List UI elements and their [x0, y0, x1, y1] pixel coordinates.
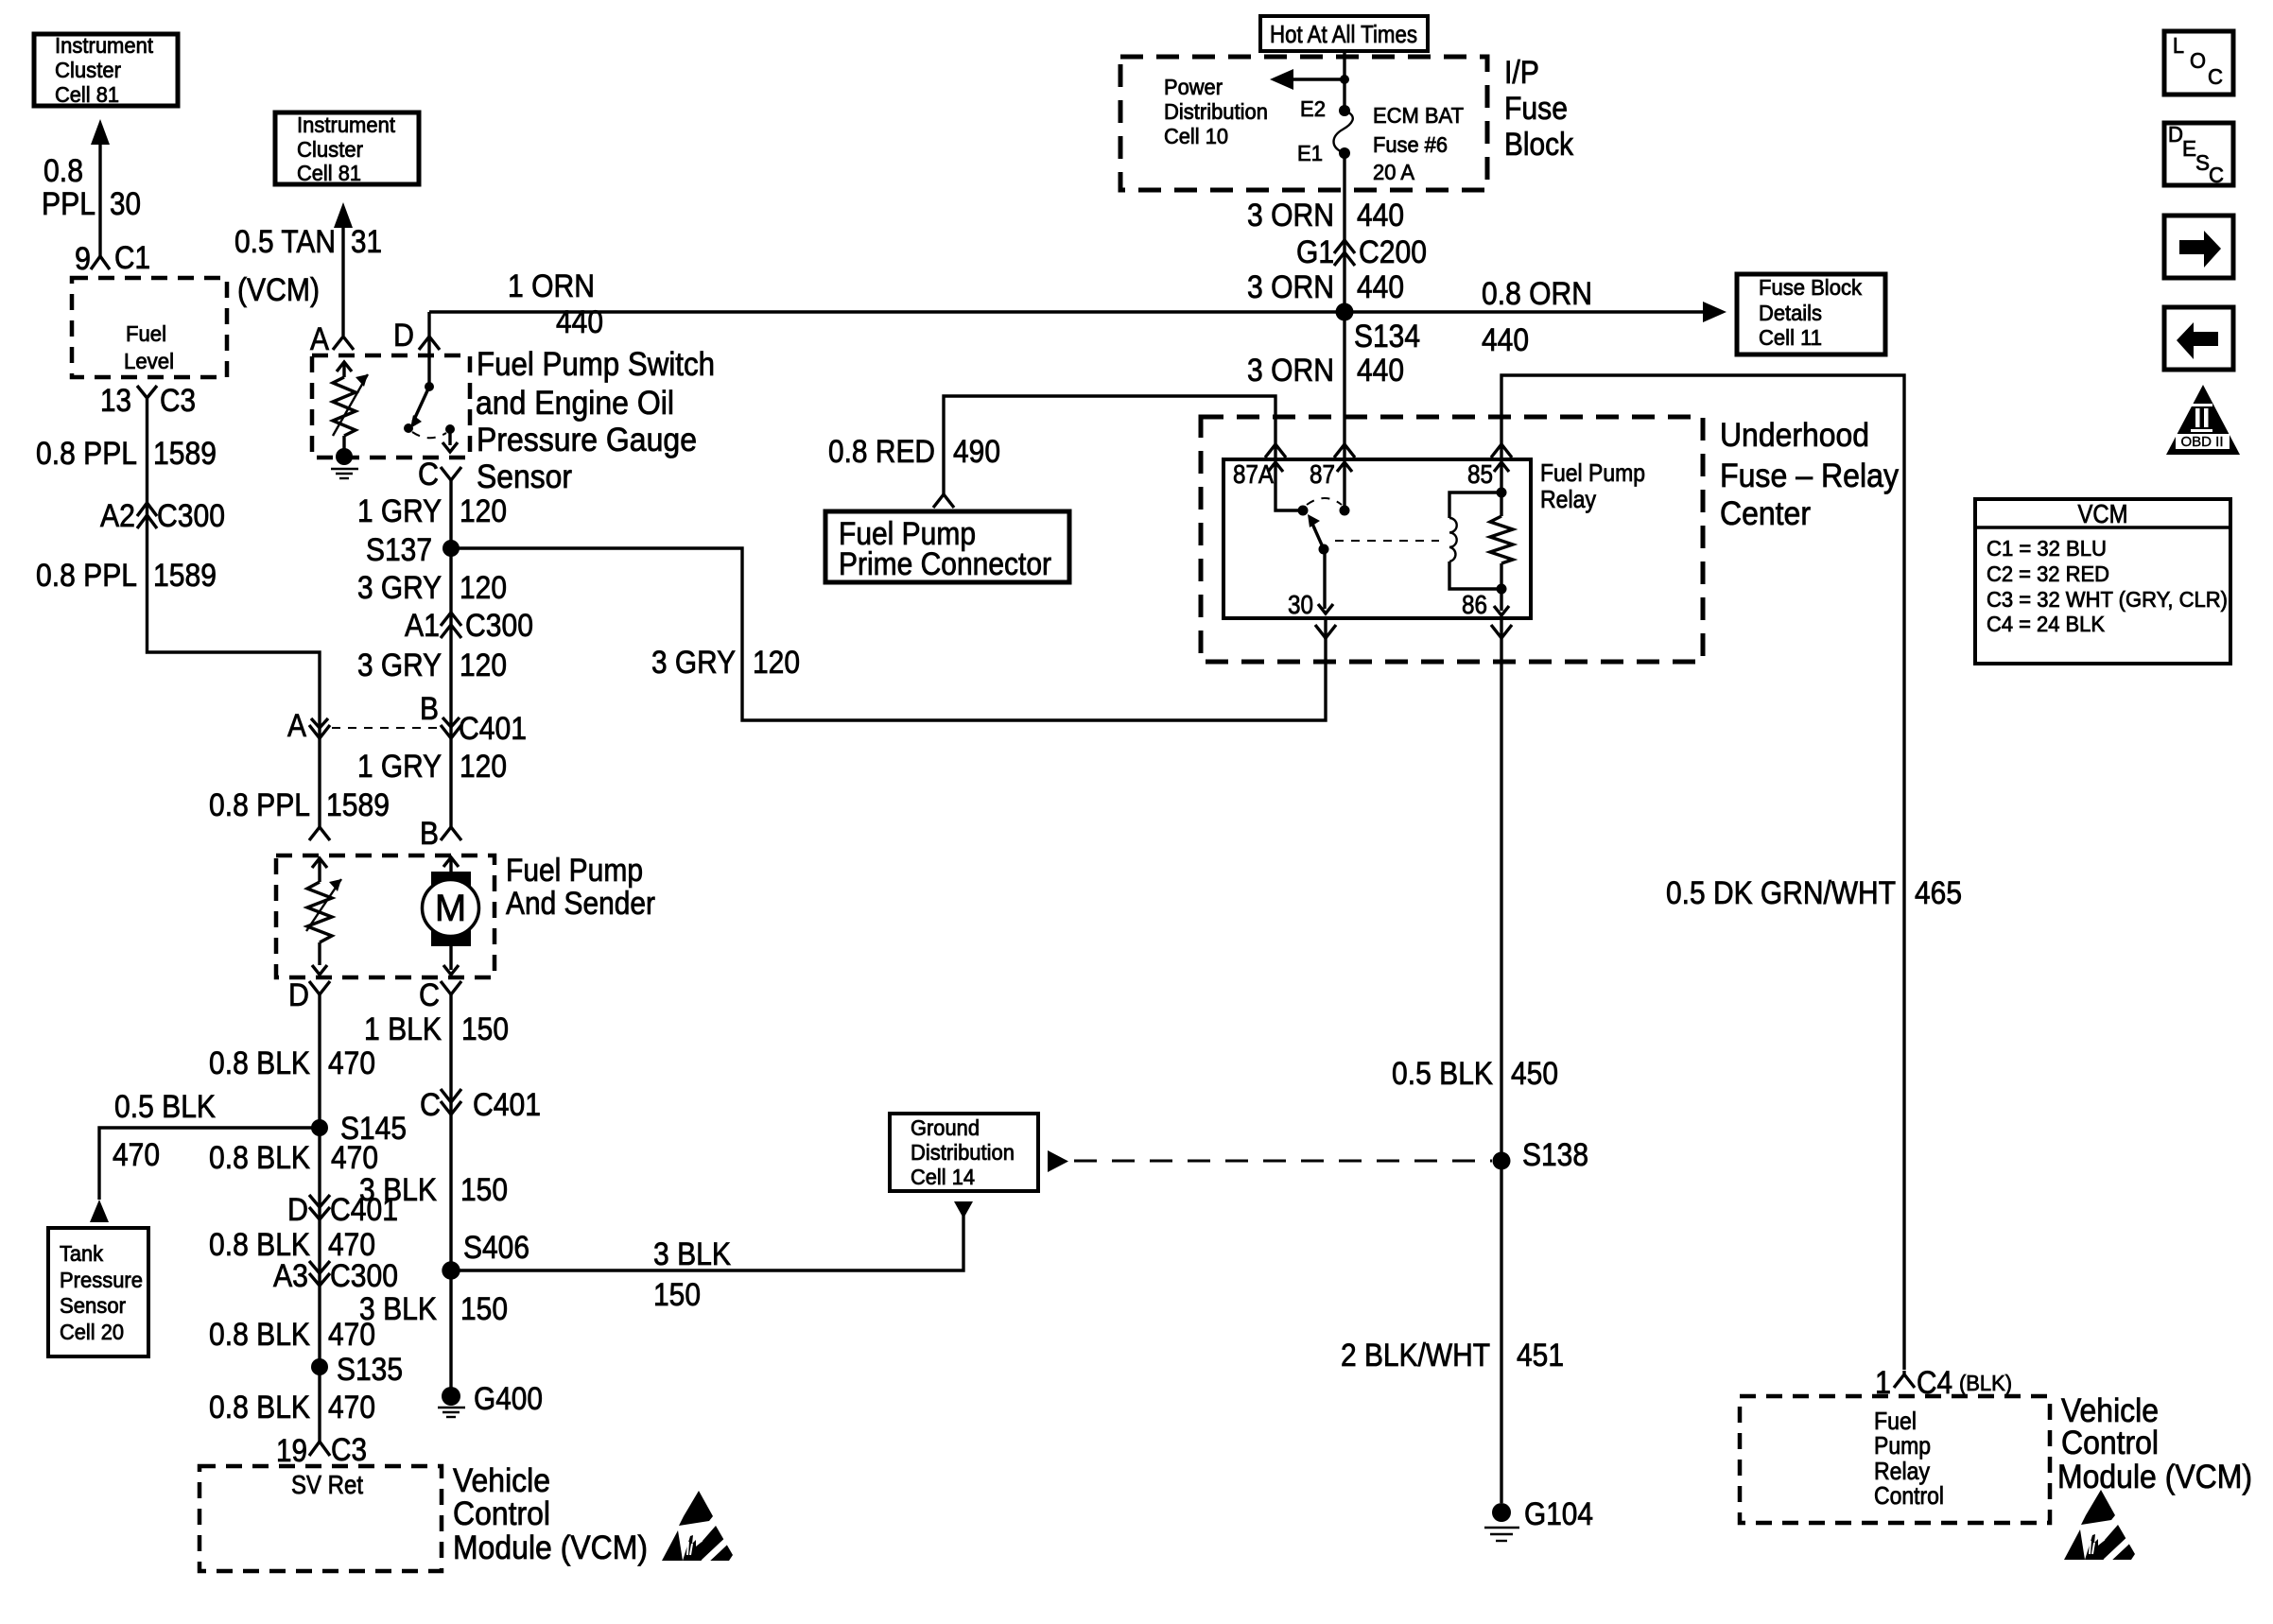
label 3 GRY 120 (below A1 C300)	[357, 648, 507, 683]
svg-text:Control: Control	[1874, 1481, 1944, 1510]
svg-text:Fuel Pump: Fuel Pump	[506, 853, 643, 889]
svg-text:A: A	[310, 321, 329, 357]
svg-text:Sensor: Sensor	[60, 1293, 126, 1318]
icon: OBD II triangle	[2166, 385, 2240, 455]
svg-text:Fuel Pump Switch: Fuel Pump Switch	[477, 346, 715, 383]
svg-text:Power: Power	[1164, 75, 1223, 99]
svg-text:Cluster: Cluster	[297, 137, 363, 162]
relay pin 30 (common)	[1288, 549, 1333, 619]
relay pin 87 contact	[1310, 459, 1352, 516]
connector (relay 87 pin)	[1334, 444, 1355, 458]
icon: DESC box	[2164, 122, 2233, 187]
svg-text:O: O	[2190, 48, 2206, 73]
svg-text:Cluster: Cluster	[55, 58, 121, 82]
svg-text:120: 120	[460, 570, 507, 606]
fuse ECM BAT Fuse #6 20 A	[1297, 96, 1464, 184]
svg-text:C300: C300	[157, 498, 225, 534]
wire 3 GRY 120 (S137 to fuel pump relay 30)	[451, 548, 1326, 720]
connector C (below switch box)	[418, 457, 461, 492]
box: Instrument Cluster Cell 81 (upper middle)	[275, 112, 419, 185]
svg-text:1 BLK: 1 BLK	[364, 1011, 442, 1047]
svg-text:31: 31	[351, 224, 382, 260]
relay resistor	[1490, 488, 1513, 595]
svg-text:C300: C300	[465, 608, 533, 644]
svg-text:and Engine Oil: and Engine Oil	[476, 385, 674, 422]
svg-text:C401: C401	[459, 711, 527, 747]
svg-text:(VCM): (VCM)	[237, 272, 320, 308]
svg-text:ECM BAT: ECM BAT	[1373, 103, 1464, 128]
svg-text:G104: G104	[1524, 1496, 1593, 1532]
connector A (C401 row)	[287, 708, 330, 744]
icon: LOC box	[2164, 31, 2233, 95]
svg-text:A3: A3	[273, 1258, 308, 1294]
svg-text:Pressure Gauge: Pressure Gauge	[477, 422, 697, 458]
svg-text:Control: Control	[2061, 1425, 2159, 1461]
connector (relay 85 pin)	[1491, 444, 1512, 458]
svg-text:M: M	[435, 888, 466, 929]
svg-text:3 GRY: 3 GRY	[357, 648, 442, 683]
svg-text:G1: G1	[1296, 234, 1334, 270]
connector 19 C3 (VCM)	[276, 1432, 367, 1469]
svg-text:G400: G400	[474, 1381, 543, 1417]
svg-text:A2: A2	[100, 498, 135, 534]
svg-text:87A: 87A	[1233, 459, 1274, 489]
box: Fuse Block Details Cell 11	[1737, 274, 1885, 354]
svg-text:150: 150	[653, 1277, 701, 1313]
svg-text:Control: Control	[453, 1495, 550, 1532]
label 0.8 PPL 30	[42, 153, 141, 222]
svg-text:Cell 14: Cell 14	[911, 1165, 975, 1189]
ground G104	[1484, 1496, 1593, 1541]
arrow to tank pressure sensor	[90, 1200, 109, 1222]
svg-text:9: 9	[75, 241, 91, 277]
svg-text:Pressure: Pressure	[60, 1268, 143, 1292]
svg-text:0.8 BLK: 0.8 BLK	[209, 1045, 310, 1081]
svg-text:Sensor: Sensor	[477, 458, 572, 495]
wire 3 ORN 440 (fuse to relay 87)	[1343, 153, 1345, 458]
svg-text:(BLK): (BLK)	[1959, 1371, 2012, 1395]
connector D (fuel pump switch)	[393, 318, 440, 354]
wire 0.5 DK GRN/WHT 465 (relay 85 to VCM C4)	[1501, 375, 1904, 1370]
svg-text:Pump: Pump	[1874, 1431, 1931, 1460]
relay pin 86 (coil ground)	[1462, 589, 1509, 619]
wire 0.8 BLK 470 (sender ground chain)	[318, 994, 321, 1442]
svg-text:C3 = 32 WHT (GRY, CLR): C3 = 32 WHT (GRY, CLR)	[1987, 587, 2228, 612]
svg-text:0.8 ORN: 0.8 ORN	[1482, 276, 1592, 312]
svg-text:Cell 81: Cell 81	[297, 161, 361, 185]
svg-text:D: D	[288, 977, 309, 1013]
svg-text:0.5 DK GRN/WHT: 0.5 DK GRN/WHT	[1666, 875, 1896, 911]
svg-text:1 GRY: 1 GRY	[357, 749, 442, 785]
motor M (fuel pump)	[423, 857, 479, 975]
svg-text:Instrument: Instrument	[55, 33, 154, 58]
connector D (below sender box)	[288, 977, 330, 1013]
svg-text:19: 19	[276, 1433, 307, 1469]
svg-text:Fuel: Fuel	[126, 321, 166, 346]
svg-text:0.5 BLK: 0.5 BLK	[1392, 1056, 1493, 1092]
svg-text:B: B	[420, 691, 439, 727]
svg-text:Underhood: Underhood	[1720, 417, 1869, 454]
svg-text:Instrument: Instrument	[297, 112, 396, 137]
box: Instrument Cluster Cell 81 (left)	[34, 33, 178, 107]
connector (into fuel pump sender, left)	[309, 827, 330, 840]
wire (relay 30 through underhood box)	[1324, 618, 1327, 639]
svg-text:450: 450	[1511, 1056, 1558, 1092]
svg-text:C401: C401	[473, 1087, 541, 1123]
icon: right arrow box	[2164, 216, 2233, 278]
box: Ground Distribution Cell 14	[890, 1114, 1038, 1191]
svg-text:Cell 81: Cell 81	[55, 82, 119, 107]
component: I/P Fuse Block (dashed box)	[1120, 57, 1487, 190]
svg-text:C4 = 24 BLK: C4 = 24 BLK	[1987, 612, 2106, 636]
svg-text:0.8 BLK: 0.8 BLK	[209, 1317, 310, 1353]
label Vehicle Control Module (VCM) (bottom right)	[2057, 1392, 2252, 1495]
wire (hot feed into fuse block)	[1343, 50, 1345, 111]
svg-text:3 BLK: 3 BLK	[653, 1236, 731, 1272]
label Fuel Pump Relay	[1540, 458, 1645, 513]
svg-text:Ground: Ground	[911, 1115, 980, 1140]
splice S138	[1493, 1137, 1589, 1173]
label Fuel Pump Switch and Engine Oil Pressure Gauge Sensor	[476, 346, 715, 495]
svg-text:Center: Center	[1720, 495, 1811, 532]
arrow to instrument cluster (left)	[91, 119, 110, 145]
label 0.5 DK GRN/WHT 465	[1666, 875, 1962, 911]
arrow to instrument cluster (middle)	[334, 202, 353, 228]
svg-text:Details: Details	[1759, 301, 1822, 325]
wire 1 BLK 150 (pump motor return)	[449, 994, 452, 1398]
svg-text:0.8 PPL: 0.8 PPL	[36, 558, 137, 594]
label Fuel Pump And Sender	[506, 853, 655, 922]
arrow from ground distribution (right)	[1048, 1150, 1068, 1172]
svg-text:C: C	[420, 1087, 441, 1123]
connector 1 C4 (BLK)	[1875, 1365, 2012, 1401]
connector D C401 (lower)	[287, 1192, 398, 1228]
wire 1 ORN 440 / 0.8 ORN 440 (horizontal)	[429, 312, 1711, 350]
svg-text:0.8: 0.8	[43, 153, 83, 189]
svg-text:Module (VCM): Module (VCM)	[2057, 1459, 2252, 1495]
label 2 BLK/WHT 451	[1341, 1338, 1564, 1373]
svg-text:Hot At All Times: Hot At All Times	[1270, 20, 1417, 48]
svg-text:C1 = 32 BLU: C1 = 32 BLU	[1987, 536, 2107, 561]
svg-text:3 GRY: 3 GRY	[357, 570, 442, 606]
splice S135	[311, 1352, 403, 1388]
svg-text:440: 440	[556, 304, 603, 340]
box: Fuel Pump Prime Connector	[825, 511, 1069, 582]
component: Fuel Pump And Sender (dashed box)	[276, 855, 495, 977]
component: Underhood Fuse-Relay Center (dashed box)	[1201, 417, 1703, 662]
label Vehicle Control Module (VCM) (bottom left)	[453, 1462, 648, 1566]
box: Hot At All Times	[1260, 16, 1428, 51]
svg-text:Distribution: Distribution	[911, 1140, 1015, 1165]
label I/P Fuse Block	[1504, 55, 1574, 163]
wire 0.5 BLK 450 / 2 BLK/WHT 451 (relay 86 to G104)	[1500, 618, 1502, 1503]
label 0.8 ORN 440	[1482, 276, 1592, 358]
svg-text:S406: S406	[463, 1230, 529, 1266]
svg-text:150: 150	[460, 1291, 508, 1327]
wire 0.8 PPL 1589 (fuel level to C401)	[147, 413, 321, 827]
svg-text:E: E	[2182, 136, 2196, 161]
connector G1 C200	[1296, 234, 1427, 270]
svg-text:B: B	[420, 816, 439, 852]
svg-text:30: 30	[1288, 590, 1313, 619]
svg-text:1589: 1589	[153, 558, 217, 594]
label Power Distribution Cell 10	[1164, 75, 1268, 148]
svg-text:D: D	[393, 318, 414, 354]
svg-text:120: 120	[460, 493, 507, 529]
label 3 ORN 440 (row 1)	[1247, 198, 1404, 233]
label 3 ORN 440 (row 2)	[1247, 269, 1404, 305]
label 3 BLK 150 (row 2)	[359, 1291, 508, 1327]
label 0.8 BLK 470 (row 4)	[209, 1317, 375, 1353]
splice S137	[366, 532, 460, 568]
svg-text:E2: E2	[1300, 96, 1326, 121]
svg-text:0.5 BLK: 0.5 BLK	[114, 1089, 216, 1125]
svg-text:1589: 1589	[153, 436, 217, 472]
connector boundary dashed line C401	[332, 727, 439, 729]
label 1 GRY 120 (below C401)	[357, 749, 507, 785]
svg-text:A1: A1	[405, 608, 440, 644]
box: Tank Pressure Sensor Cell 20	[48, 1228, 148, 1356]
component: Vehicle Control Module (dashed box, SV Ret)	[200, 1466, 442, 1571]
label 3 BLK 150 (horizontal run)	[653, 1236, 731, 1313]
svg-text:S: S	[2195, 150, 2210, 175]
svg-text:440: 440	[1482, 322, 1529, 358]
connector (below relay pin 86)	[1491, 625, 1512, 638]
svg-text:3 ORN: 3 ORN	[1247, 269, 1334, 305]
svg-text:0.8 PPL: 0.8 PPL	[36, 436, 137, 472]
svg-text:C1: C1	[114, 240, 150, 276]
svg-text:20 A: 20 A	[1373, 160, 1415, 184]
label 0.8 BLK 470 (row 3)	[209, 1227, 375, 1263]
label 1 BLK 150	[364, 1011, 509, 1047]
label 0.5 TAN 31	[234, 224, 382, 260]
label 0.8 PPL 1589 (lower)	[36, 558, 217, 594]
svg-text:Module (VCM): Module (VCM)	[453, 1529, 648, 1566]
connector (fuel pump prime connector)	[933, 494, 954, 508]
ESD symbol (bottom left VCM)	[662, 1491, 734, 1563]
svg-text:C3: C3	[160, 383, 196, 419]
svg-text:Fuse – Relay: Fuse – Relay	[1720, 458, 1899, 494]
label 0.8 BLK 470 (row 1)	[209, 1045, 375, 1081]
svg-text:C: C	[418, 457, 439, 492]
svg-text:0.8 RED: 0.8 RED	[828, 434, 935, 470]
svg-text:Cell 10: Cell 10	[1164, 124, 1228, 148]
label 0.8 PPL 1589 (below C401)	[209, 787, 390, 823]
connector C C401 (pump return)	[420, 1087, 541, 1123]
svg-text:S134: S134	[1354, 319, 1420, 354]
ground G400	[438, 1381, 543, 1417]
splice S145	[311, 1111, 407, 1147]
svg-text:120: 120	[460, 648, 507, 683]
svg-text:D: D	[287, 1192, 308, 1228]
wire 3 BLK 150 (S406 to ground distribution)	[451, 1216, 963, 1270]
svg-text:Tank: Tank	[60, 1241, 103, 1266]
label 0.5 BLK 450	[1392, 1056, 1558, 1092]
label 0.8 BLK 470 (row 5)	[209, 1390, 375, 1425]
svg-text:120: 120	[753, 645, 800, 681]
svg-text:A: A	[287, 708, 306, 744]
connector A3 C300 (lower)	[273, 1258, 398, 1294]
arrow to fuse block details	[1703, 302, 1726, 322]
svg-text:C401: C401	[330, 1192, 398, 1228]
relay pin 87A (normally closed contact)	[1233, 459, 1309, 516]
connector B C401	[420, 691, 527, 747]
svg-text:87: 87	[1310, 459, 1335, 489]
ESD symbol (bottom right VCM)	[2064, 1490, 2136, 1562]
svg-text:Relay: Relay	[1540, 485, 1596, 513]
svg-text:85: 85	[1467, 459, 1493, 489]
svg-text:Fuse: Fuse	[1504, 91, 1568, 127]
wire 0.5 BLK 470 (S145 to tank pressure sensor)	[99, 1128, 320, 1200]
svg-text:C300: C300	[330, 1258, 398, 1294]
connector B (into fuel pump and sender)	[420, 816, 461, 852]
svg-text:490: 490	[953, 434, 1000, 470]
svg-text:OBD II: OBD II	[2180, 434, 2223, 450]
svg-text:C2 = 32 RED: C2 = 32 RED	[1987, 561, 2109, 586]
svg-text:S138: S138	[1522, 1137, 1588, 1173]
connector A2 C300	[100, 498, 225, 534]
svg-text:30: 30	[110, 186, 141, 222]
svg-text:470: 470	[113, 1137, 160, 1173]
label 3 GRY 120 (above A1 C300)	[357, 570, 507, 606]
component: Fuel Pump Switch and Engine Oil Pressure Gauge Sensor (dashed box)	[312, 355, 470, 458]
svg-text:2 BLK/WHT: 2 BLK/WHT	[1341, 1338, 1490, 1373]
wire 0.8 PPL 30	[98, 142, 101, 256]
svg-text:0.8 PPL: 0.8 PPL	[209, 787, 310, 823]
svg-text:Cell 11: Cell 11	[1759, 325, 1822, 350]
connector 13 C3	[100, 383, 196, 419]
wire 0.8 RED 490 (fuel pump prime)	[944, 396, 1275, 494]
svg-text:3 GRY: 3 GRY	[651, 645, 736, 681]
label 3 BLK 150 (row 1)	[359, 1172, 508, 1208]
svg-text:1589: 1589	[326, 787, 390, 823]
splice S134	[1336, 303, 1421, 355]
svg-text:470: 470	[331, 1140, 378, 1176]
svg-text:1 ORN: 1 ORN	[508, 268, 595, 304]
svg-text:PPL: PPL	[42, 186, 95, 222]
relay coil	[1449, 492, 1501, 589]
svg-text:150: 150	[461, 1011, 509, 1047]
connector A (fuel pump switch)	[310, 321, 354, 357]
svg-text:440: 440	[1357, 353, 1404, 389]
svg-text:I/P: I/P	[1504, 55, 1539, 91]
svg-text:451: 451	[1517, 1338, 1564, 1373]
svg-text:Prime Connector: Prime Connector	[839, 546, 1051, 582]
svg-text:3 ORN: 3 ORN	[1247, 353, 1334, 389]
svg-text:150: 150	[460, 1172, 508, 1208]
label Underhood Fuse-Relay Center	[1720, 417, 1899, 532]
svg-text:C3: C3	[331, 1432, 367, 1468]
svg-text:Fuel Pump: Fuel Pump	[1540, 458, 1645, 487]
component: Vehicle Control Module (dashed box, Fuel Pump Relay Control)	[1740, 1396, 2050, 1523]
component: Fuel Level sender (dashed box)	[72, 278, 227, 377]
svg-text:Fuse Block: Fuse Block	[1759, 275, 1862, 300]
label 0.8 RED 490	[828, 434, 1000, 470]
splice S406	[442, 1230, 529, 1280]
svg-text:S137: S137	[366, 532, 432, 568]
relay box: Fuel Pump Relay	[1223, 459, 1531, 618]
svg-text:120: 120	[460, 749, 507, 785]
label 3 GRY 120 (on jog wire)	[651, 645, 800, 681]
svg-text:D: D	[2168, 122, 2183, 147]
svg-text:13: 13	[100, 383, 131, 419]
wire 0.5 TAN 31	[341, 225, 344, 336]
arrow to power distribution	[1270, 69, 1349, 90]
svg-text:E1: E1	[1297, 141, 1323, 165]
svg-text:440: 440	[1357, 198, 1404, 233]
label 0.5 BLK 470 (tank pressure branch)	[113, 1089, 216, 1173]
label 0.8 BLK 470 (row 2)	[209, 1140, 378, 1176]
svg-text:86: 86	[1462, 590, 1487, 619]
variable resistor (fuel level sender)	[306, 858, 341, 975]
icon: left arrow box	[2164, 307, 2233, 370]
ground (inside switch box)	[331, 448, 358, 478]
connector (relay 87A pin)	[1265, 444, 1286, 458]
svg-text:Distribution: Distribution	[1164, 99, 1268, 124]
svg-text:440: 440	[1357, 269, 1404, 305]
connector A1 C300	[405, 608, 533, 644]
svg-text:L: L	[2173, 33, 2184, 58]
wire (S137 down to C300/C401)	[449, 548, 452, 827]
box: VCM connector table	[1975, 499, 2230, 664]
relay switch arm	[1307, 498, 1342, 555]
svg-text:VCM: VCM	[2078, 499, 2128, 528]
svg-text:Cell 20: Cell 20	[60, 1320, 124, 1344]
svg-text:And Sender: And Sender	[506, 886, 655, 922]
svg-text:470: 470	[328, 1045, 375, 1081]
wire 1 GRY 120 (switch to S137)	[449, 480, 452, 547]
svg-text:S135: S135	[337, 1352, 403, 1388]
svg-text:C200: C200	[1359, 234, 1427, 270]
svg-text:470: 470	[328, 1390, 375, 1425]
label 0.8 PPL 1589 (upper)	[36, 436, 217, 472]
label 3 ORN 440 (row 3)	[1247, 353, 1404, 389]
relay pin 85 (coil feed)	[1467, 459, 1509, 492]
connector 9 C1	[75, 240, 150, 277]
svg-text:SV Ret: SV Ret	[291, 1470, 363, 1499]
svg-text:465: 465	[1915, 875, 1962, 911]
svg-text:3 ORN: 3 ORN	[1247, 198, 1334, 233]
dashed wire (ground distribution to S138)	[1074, 1160, 1492, 1163]
connector (below relay pin 30)	[1315, 625, 1336, 638]
svg-text:0.8 BLK: 0.8 BLK	[209, 1140, 310, 1176]
svg-text:Fuse #6: Fuse #6	[1373, 132, 1448, 157]
svg-text:C: C	[2209, 163, 2224, 187]
svg-text:Level: Level	[124, 349, 174, 373]
svg-text:Vehicle: Vehicle	[453, 1462, 550, 1499]
svg-text:0.5 TAN: 0.5 TAN	[234, 224, 336, 260]
label 1 GRY 120 (upper)	[357, 493, 507, 529]
mechanical linkage (dashed)	[1335, 540, 1439, 542]
label 1 ORN 440	[508, 268, 603, 340]
switch contact (oil pressure switch)	[404, 350, 458, 452]
svg-text:C: C	[2208, 64, 2223, 89]
variable resistor (fuel level sensor inside switch box)	[333, 362, 368, 449]
arrow to ground distribution	[954, 1201, 973, 1218]
svg-text:470: 470	[328, 1317, 375, 1353]
svg-text:0.8 BLK: 0.8 BLK	[209, 1390, 310, 1425]
svg-text:Block: Block	[1504, 127, 1574, 163]
connector C (below sender box)	[419, 977, 461, 1013]
svg-text:1 GRY: 1 GRY	[357, 493, 442, 529]
svg-text:C: C	[419, 977, 440, 1013]
